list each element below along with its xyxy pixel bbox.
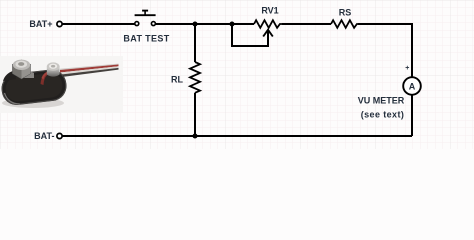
svg-text:RS: RS [339, 8, 352, 18]
wire meter to bottom [411, 95, 413, 136]
red inner wire [41, 72, 50, 86]
wire top: switch to RV1 [155, 23, 254, 25]
junction node bottom RL [193, 134, 198, 139]
wire RL branch vertical top [194, 24, 196, 62]
switch S1 push button BAT TEST [135, 11, 156, 26]
RV1 wiper wire loop [232, 24, 268, 46]
clip body shadow [2, 98, 64, 108]
svg-text:+: + [405, 65, 409, 72]
svg-text:RV1: RV1 [261, 6, 278, 16]
svg-text:BAT-: BAT- [34, 131, 54, 141]
svg-text:BAT+: BAT+ [29, 19, 52, 29]
wire top: BAT+ to switch [62, 23, 135, 25]
svg-text:RL: RL [171, 75, 183, 85]
potentiometer RV1 [254, 20, 282, 28]
wire top: RV1 to RS [282, 23, 331, 25]
junction node at RV1 wiper [230, 22, 235, 27]
RV1 wiper arrowhead [263, 30, 273, 37]
node BAT+ terminal [57, 21, 62, 26]
wire RL branch vertical bottom [194, 93, 196, 136]
clip body [0, 68, 68, 107]
svg-text:A: A [409, 82, 416, 92]
svg-text:BAT TEST: BAT TEST [123, 34, 169, 44]
svg-text:(see text): (see text) [361, 110, 405, 120]
wire bottom [62, 135, 412, 137]
right terminal (male stud) [47, 67, 60, 77]
battery clip photo background [0, 56, 123, 113]
wire top: RS to right corner [358, 24, 412, 77]
battery clip photo [0, 60, 119, 108]
body bump behind left terminal [3, 71, 16, 82]
svg-text:VU METER: VU METER [358, 96, 405, 106]
junction node at RL branch [193, 22, 198, 27]
node BAT- terminal [57, 133, 62, 138]
left terminal (female snap) [24, 69, 34, 78]
resistor RS [331, 20, 358, 28]
wire ribbon [60, 64, 119, 78]
meter M1 ammeter [403, 77, 421, 95]
resistor RL [190, 62, 200, 93]
